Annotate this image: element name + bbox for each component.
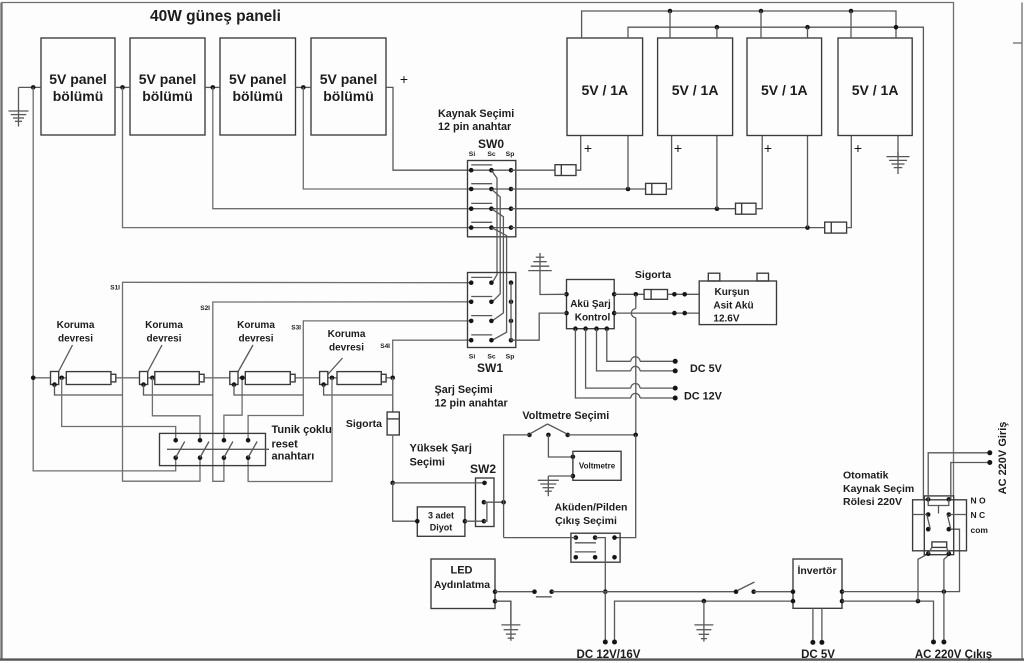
fuse F1 bbox=[555, 165, 576, 176]
svg-text:devresi: devresi bbox=[146, 334, 181, 345]
svg-text:Aküden/Pilden: Aküden/Pilden bbox=[555, 502, 628, 514]
pins relay com row bbox=[926, 527, 931, 532]
wire relay bottom right jog bbox=[944, 554, 950, 592]
ground G1 top left bbox=[18, 87, 20, 126]
svg-text:+: + bbox=[854, 140, 862, 156]
wire controller to battery fuse bbox=[614, 293, 644, 295]
svg-text:Kurşun: Kurşun bbox=[715, 287, 750, 298]
pins SW1 row1 bbox=[469, 280, 474, 285]
svg-text:12.6V: 12.6V bbox=[713, 314, 739, 325]
node rail ground tap bbox=[702, 599, 707, 604]
fuse battery Sigorta bbox=[644, 290, 667, 300]
wire bus C tap charger3 bbox=[807, 27, 809, 38]
wire K3 bottom to descender bbox=[234, 385, 303, 395]
wire selector left to output bus bbox=[504, 435, 530, 538]
svg-text:+: + bbox=[584, 140, 592, 156]
svg-text:+: + bbox=[764, 140, 772, 156]
svg-text:12 pin anahtar: 12 pin anahtar bbox=[435, 398, 509, 410]
node bus B charger4 bbox=[849, 9, 854, 14]
svg-text:Diyot: Diyot bbox=[430, 523, 453, 533]
switch reset S2 contacts bbox=[198, 438, 203, 443]
svg-text:5V panel: 5V panel bbox=[229, 71, 287, 87]
svg-text:Koruma: Koruma bbox=[237, 320, 275, 331]
switch SW1 row4 contact bar bbox=[471, 334, 492, 336]
wire SW2 middle to battery bus bbox=[484, 501, 504, 503]
pin SW2 top bbox=[482, 481, 487, 486]
wire AC out right arrow bbox=[943, 592, 945, 641]
wire battery bus down to output block bbox=[615, 435, 636, 538]
wire pointer koruma 2 bbox=[144, 345, 162, 379]
node K4 junction bbox=[330, 376, 335, 381]
svg-text:Sc: Sc bbox=[487, 354, 496, 361]
switch SW1 row1 contact bar bbox=[471, 276, 492, 278]
ground G7 rail bbox=[703, 601, 705, 642]
switch SW0 12-pin block bbox=[468, 161, 516, 237]
node bus C charger3 bbox=[805, 25, 810, 30]
node SW2 output on battery bus bbox=[501, 500, 506, 505]
svg-text:Şarj Seçimi: Şarj Seçimi bbox=[435, 384, 493, 396]
wire ground to panel 1 bbox=[19, 86, 42, 88]
relay box akuden/pilden output select bbox=[571, 533, 620, 562]
wire SW0 row1 through bbox=[471, 169, 511, 171]
fuse F4 bbox=[825, 222, 847, 233]
breaker switch K1 bbox=[51, 372, 59, 385]
wire SW0 row2 to fuse F2 bbox=[511, 188, 646, 190]
svg-text:Tunik çoklu: Tunik çoklu bbox=[272, 424, 332, 436]
svg-text:Sigorta: Sigorta bbox=[635, 269, 671, 281]
wire reset switch link bar bbox=[167, 448, 269, 450]
wire right border bus bbox=[1021, 3, 1023, 660]
svg-text:5V / 1A: 5V / 1A bbox=[581, 82, 628, 98]
svg-text:5V panel: 5V panel bbox=[139, 71, 197, 87]
wire koruma unit2 junction to reset top pin2 bbox=[152, 378, 200, 441]
wire SW0 Sc row3 to bundle bbox=[491, 209, 503, 321]
svg-text:Koruma: Koruma bbox=[328, 329, 366, 340]
wire sigorta output to SW2 top pin bbox=[393, 482, 485, 484]
svg-text:5V / 1A: 5V / 1A bbox=[672, 82, 719, 98]
switch reset S4 contacts bbox=[246, 438, 251, 443]
pins inverter right bbox=[840, 589, 845, 594]
wire SW0 row1 to fuse F1 bbox=[511, 169, 555, 171]
svg-text:3 adet: 3 adet bbox=[428, 511, 454, 521]
breaker switch K3 bbox=[230, 372, 238, 385]
wire left riser from ground node bbox=[33, 87, 176, 471]
switch SW1 row3 contact bar bbox=[471, 315, 492, 317]
LED box Aydinlatma bbox=[431, 559, 495, 609]
svg-text:5V / 1A: 5V / 1A bbox=[761, 82, 808, 98]
node bus C charger2 bbox=[715, 25, 720, 30]
pins output select bottom bbox=[574, 555, 579, 560]
svg-text:Sp: Sp bbox=[506, 151, 515, 158]
wire output select internal bars bbox=[575, 542, 596, 544]
pins relay NC row bbox=[926, 512, 931, 517]
wire koruma common row bbox=[33, 377, 393, 379]
pin LED lower bbox=[493, 599, 498, 604]
node K2 bottom pin bbox=[141, 382, 146, 387]
wire SW0 row4 through bbox=[471, 227, 511, 229]
wire bottom border bus bbox=[0, 659, 1024, 661]
wire SW1 Sp strap bbox=[510, 283, 512, 341]
svg-text:Akü Şarj: Akü Şarj bbox=[570, 299, 611, 310]
pins SW0 row3 bbox=[469, 206, 474, 211]
wire sigorta riser upper bbox=[392, 378, 394, 412]
svg-text:Çıkış Seçimi: Çıkış Seçimi bbox=[555, 515, 617, 527]
wire K2 bottom to descender bbox=[144, 385, 213, 395]
solar panel section box 3 bbox=[220, 38, 296, 135]
wire koruma unit3 junction to reset top pin3 bbox=[224, 378, 242, 441]
resistor R3 protection bbox=[245, 372, 290, 385]
svg-text:reset: reset bbox=[272, 439, 299, 451]
node left riser koruma row bbox=[31, 376, 36, 381]
wire controller out4 DC12V b bbox=[575, 329, 630, 398]
wire panel4 output + bbox=[386, 87, 471, 170]
relay coil bbox=[932, 542, 947, 548]
battery box Kursun Asit Aku BT1 bbox=[699, 281, 776, 325]
wire controller out3 DC12V a bbox=[586, 329, 631, 388]
diode box 3 adet Diyot D1-D3 bbox=[417, 507, 465, 536]
wire output node to inverter switch bbox=[605, 591, 736, 593]
relay contact arms bbox=[927, 515, 931, 530]
svg-text:Si: Si bbox=[469, 354, 476, 361]
pins SW1 row3 bbox=[469, 319, 474, 324]
switch SW1 12-pin block bbox=[468, 273, 516, 348]
charge controller box Aku Sarj Kontrol U1 bbox=[567, 280, 615, 329]
wire LED to switch bbox=[495, 591, 535, 593]
svg-text:com: com bbox=[971, 525, 989, 535]
wire left border double bbox=[0, 3, 2, 660]
node charger1 minus junction bbox=[626, 187, 631, 192]
wire charger4 minus to ground bbox=[897, 136, 899, 157]
svg-text:SW1: SW1 bbox=[477, 361, 503, 375]
wire K4 bottom to descender bbox=[324, 385, 393, 395]
wire select block output down bbox=[595, 538, 605, 592]
node junction on ground wire bbox=[31, 85, 36, 90]
relay K1 outer box bbox=[913, 500, 967, 551]
svg-text:AC 220V Giriş: AC 220V Giriş bbox=[997, 422, 1009, 495]
wire relay bottom left jog bbox=[918, 554, 928, 601]
svg-text:5V panel: 5V panel bbox=[49, 71, 107, 87]
svg-text:Kontrol: Kontrol bbox=[575, 313, 611, 324]
pins relay top row bbox=[926, 497, 931, 502]
svg-text:Otomatik: Otomatik bbox=[843, 470, 889, 482]
svg-text:N O: N O bbox=[971, 496, 987, 506]
wire pointer koruma 1 bbox=[55, 345, 73, 379]
fuse F2 bbox=[646, 183, 667, 194]
ground G2 charger4 bbox=[897, 152, 899, 174]
wire SW0 Sc row1 to bundle bbox=[491, 170, 497, 283]
ground G5 voltmeter bbox=[547, 476, 549, 496]
node output on LED wire bbox=[603, 589, 608, 594]
svg-text:anahtarı: anahtarı bbox=[272, 451, 315, 463]
resistor R4 protection bbox=[337, 372, 381, 385]
wire panel junction1 to SW0 row4 bbox=[123, 87, 472, 227]
resistor R2 protection bbox=[155, 372, 200, 385]
switch inverter SPST bbox=[734, 589, 739, 594]
pin controller left upper bbox=[564, 292, 569, 297]
solar panel section box 1 bbox=[41, 38, 115, 135]
wire LED lower to ground bbox=[495, 601, 511, 625]
ground G3 inverted above controller bbox=[539, 253, 541, 271]
wire switch to output node bbox=[552, 591, 606, 593]
wire SW0 row3 to fuse F3 bbox=[511, 208, 736, 210]
switch LED SPST bbox=[532, 589, 537, 594]
node battery bus at selector bbox=[633, 433, 638, 438]
wire controller lower to battery minus bbox=[614, 312, 699, 314]
inverter box Invertor bbox=[793, 559, 842, 608]
svg-text:devresi: devresi bbox=[238, 334, 273, 345]
relay center tee bbox=[928, 499, 949, 505]
wire diode box to SW2 bottom pin bbox=[465, 520, 484, 522]
wire sigorta riser lower bbox=[392, 435, 394, 483]
wire switch to inverter bbox=[754, 591, 793, 593]
svg-text:devresi: devresi bbox=[329, 343, 364, 354]
connector dots battery minus bbox=[672, 311, 677, 316]
node K1 junction bbox=[59, 376, 64, 381]
wire selector pole to voltmeter bbox=[548, 435, 573, 457]
resistor R1 protection bbox=[66, 372, 111, 385]
node bus B charger2 bbox=[668, 9, 673, 14]
wire bus B tap charger4 bbox=[850, 11, 852, 38]
node bus B charger3 bbox=[759, 9, 764, 14]
node panel junction 3 bbox=[301, 85, 306, 90]
wire bus B tap charger3 bbox=[760, 11, 762, 38]
wire controller upper left to ground bbox=[540, 271, 567, 295]
pins SW0 row1 bbox=[469, 168, 474, 173]
svg-text:Sp: Sp bbox=[506, 354, 515, 361]
wire inverter AC neutral bbox=[842, 601, 934, 640]
wire SW1 output to controller lower left bbox=[511, 313, 567, 340]
pin diode box right bbox=[463, 519, 468, 524]
wire inverter AC hot to relay com bbox=[842, 529, 960, 591]
svg-text:DC 12V: DC 12V bbox=[684, 391, 723, 403]
svg-text:DC 5V: DC 5V bbox=[690, 363, 723, 375]
svg-text:Koruma: Koruma bbox=[145, 320, 183, 331]
wire bus B tap charger2 bbox=[669, 11, 671, 38]
wire fuse F3 to charger3 + bbox=[756, 136, 762, 209]
switch SW0 row2 contact bar bbox=[471, 183, 492, 185]
charger box 5V/1A 4 bbox=[838, 38, 912, 136]
wire top bus B chargers plus bbox=[582, 11, 896, 38]
pins SW1 row2 bbox=[469, 300, 474, 305]
svg-text:+: + bbox=[400, 71, 408, 87]
wire fuse F4 to charger4 + bbox=[847, 136, 852, 228]
switch SW2 box bbox=[476, 478, 495, 527]
wire K1 bottom to descender bbox=[55, 385, 123, 395]
svg-text:Koruma: Koruma bbox=[57, 320, 95, 331]
wire charger2 minus down bbox=[716, 136, 718, 209]
node K2 junction bbox=[150, 376, 155, 381]
svg-text:Rölesi 220V: Rölesi 220V bbox=[843, 496, 902, 508]
svg-text:İnvertör: İnvertör bbox=[797, 564, 836, 577]
wire SW0 row3 through bbox=[471, 208, 511, 210]
wire panel3-panel4 bbox=[296, 86, 312, 88]
node panel junction 1 bbox=[120, 85, 125, 90]
wire controller out1 DC5V a bbox=[607, 329, 631, 362]
wire bus C tap charger2 bbox=[716, 27, 718, 38]
wire S3I line to SW1 row3 bbox=[248, 321, 472, 440]
switch reset S1 contacts bbox=[173, 438, 178, 443]
wire panel2-panel3 bbox=[205, 86, 220, 88]
wire panel1-panel2 bbox=[115, 86, 130, 88]
svg-text:Si: Si bbox=[469, 151, 476, 158]
svg-text:S4I: S4I bbox=[380, 343, 390, 350]
wire pointer koruma 3 bbox=[234, 345, 253, 379]
node K4 bottom pin bbox=[321, 382, 326, 387]
pins SW0 row2 bbox=[469, 187, 474, 192]
solar panel section box 2 bbox=[130, 38, 205, 135]
wire S1I line to SW1 row1 bbox=[123, 282, 473, 481]
wire SW2 middle link bbox=[484, 502, 487, 521]
wire charger3 minus down bbox=[807, 136, 809, 228]
wire pointer koruma 4 bbox=[324, 358, 343, 379]
svg-text:Yüksek Şarj: Yüksek Şarj bbox=[410, 443, 472, 455]
pin SW2 middle bbox=[482, 500, 487, 505]
node K1 bottom pin bbox=[52, 382, 57, 387]
wire AC input stub top right bbox=[1013, 42, 1022, 44]
node bus C crossing bus B drop bbox=[894, 25, 899, 30]
switch SW0 row1 contact bar bbox=[471, 164, 492, 166]
node AC neutral relay tap bbox=[916, 599, 921, 604]
node AC out right tap bbox=[942, 589, 947, 594]
svg-text:S3I: S3I bbox=[291, 325, 301, 332]
breaker switch K2 bbox=[140, 372, 148, 385]
wire SW0 Sc row2 to bundle bbox=[491, 189, 500, 302]
wire AC giris lower to relay NO bbox=[951, 463, 990, 500]
svg-text:Kaynak Seçimi: Kaynak Seçimi bbox=[438, 108, 514, 120]
svg-text:S1I: S1I bbox=[110, 285, 120, 292]
node sigorta riser on koruma row bbox=[390, 376, 395, 381]
svg-text:DC 5V: DC 5V bbox=[801, 649, 835, 661]
wire charger1 minus down bbox=[627, 136, 629, 190]
wire koruma unit4 junction to reset bottom pin4 bbox=[248, 378, 332, 482]
breaker switch K4 bbox=[320, 372, 328, 385]
svg-text:Voltmetre: Voltmetre bbox=[579, 462, 616, 471]
svg-text:DC 12V/16V: DC 12V/16V bbox=[577, 649, 641, 661]
connector dots battery plus bbox=[672, 292, 677, 297]
pin controller right upper bbox=[612, 292, 617, 297]
node battery bus tap bbox=[634, 292, 639, 297]
wire battery bus vertical with hop bbox=[635, 294, 637, 308]
wire top bus C chargers minus to relay bbox=[628, 27, 928, 499]
svg-text:N C: N C bbox=[971, 510, 986, 520]
svg-text:Voltmetre Seçimi: Voltmetre Seçimi bbox=[522, 410, 609, 422]
node K3 bottom pin bbox=[232, 382, 237, 387]
svg-text:SW0: SW0 bbox=[478, 137, 504, 151]
wire voltmeter bottom to ground bbox=[548, 475, 573, 477]
node charger2 minus junction bbox=[715, 206, 720, 211]
node sigorta output bbox=[390, 481, 395, 486]
wire S2I line to SW1 row2 bbox=[213, 302, 472, 482]
voltmeter box M1 bbox=[573, 451, 621, 480]
wire DC12V/16V rail bbox=[615, 601, 794, 642]
pin SW2 bottom bbox=[482, 519, 487, 524]
node charger3 minus junction bbox=[805, 225, 810, 230]
pins SW0 row4 bbox=[469, 225, 474, 230]
ground G6 LED bbox=[510, 601, 512, 641]
svg-text:Kaynak Seçim: Kaynak Seçim bbox=[843, 483, 914, 495]
svg-text:Aydınlatma: Aydınlatma bbox=[434, 579, 490, 591]
wire SW0 Sc row4 to bundle bbox=[491, 228, 506, 341]
svg-text:SW2: SW2 bbox=[470, 462, 496, 476]
charger box 5V/1A 3 bbox=[747, 38, 822, 136]
pins controller bottom bbox=[573, 326, 578, 331]
switch box Tunik coklu reset anahtari bbox=[160, 433, 266, 465]
pin LED upper bbox=[493, 589, 498, 594]
wire output bus to select block bbox=[504, 537, 576, 539]
svg-text:Seçimi: Seçimi bbox=[410, 457, 445, 469]
svg-text:LED: LED bbox=[451, 565, 473, 577]
svg-text:Asit Akü: Asit Akü bbox=[713, 301, 753, 312]
node voltmeter top pin bbox=[571, 455, 576, 460]
svg-text:40W güneş paneli: 40W güneş paneli bbox=[150, 8, 281, 25]
wire panel junction2 to SW0 row3 bbox=[213, 87, 471, 208]
svg-text:bölümü: bölümü bbox=[142, 88, 193, 104]
pins inverter left bbox=[791, 589, 796, 594]
wire output to DC12V/16V arrow bbox=[604, 592, 606, 641]
switch SW0 row4 contact bar bbox=[471, 221, 492, 223]
svg-text:bölümü: bölümü bbox=[232, 88, 283, 104]
pins output select top bbox=[574, 535, 579, 540]
charger box 5V/1A 2 bbox=[658, 38, 733, 136]
pins SW1 row4 bbox=[469, 338, 474, 343]
switch SW1 row2 contact bar bbox=[471, 296, 492, 298]
node panel junction 2 bbox=[211, 85, 216, 90]
wire SW0 row4 to fuse F4 bbox=[511, 227, 825, 229]
charger box 5V/1A 1 bbox=[567, 38, 643, 136]
wire fuse F1 to charger1 + bbox=[576, 136, 581, 171]
wire selector right to battery bus bbox=[568, 434, 636, 436]
wire panel junction3 to SW0 row2 bbox=[303, 87, 471, 189]
svg-text:Sc: Sc bbox=[487, 151, 496, 158]
node voltmeter bottom pin bbox=[571, 474, 576, 479]
svg-text:+: + bbox=[674, 140, 682, 156]
wire sigorta output down to diode box bbox=[393, 483, 418, 521]
svg-text:12 pin anahtar: 12 pin anahtar bbox=[438, 121, 512, 133]
svg-text:devresi: devresi bbox=[58, 334, 93, 345]
pin diode box left bbox=[415, 519, 420, 524]
pin controller left lower bbox=[564, 311, 569, 316]
svg-text:bölümü: bölümü bbox=[323, 88, 374, 104]
wire AC giris upper to relay bbox=[928, 453, 990, 500]
switch SW0 row3 contact bar bbox=[471, 202, 492, 204]
fuse F3 bbox=[736, 203, 757, 214]
wire S4I line to SW1 row4 bbox=[393, 340, 473, 412]
solar panel section box 4 bbox=[311, 38, 386, 135]
pins relay bottom row bbox=[926, 551, 931, 556]
wire koruma unit1 junction to reset top pin1 bbox=[62, 378, 176, 441]
fuse Sigorta charge path bbox=[387, 412, 399, 435]
svg-text:5V panel: 5V panel bbox=[320, 71, 378, 87]
pin controller right lower bbox=[612, 311, 617, 316]
relay NC stubs bbox=[913, 514, 927, 516]
svg-text:Sigorta: Sigorta bbox=[346, 418, 382, 430]
svg-text:AC 220V Çıkış: AC 220V Çıkış bbox=[915, 649, 992, 661]
relay K1 inner box bbox=[924, 496, 953, 555]
svg-text:bölümü: bölümü bbox=[53, 88, 104, 104]
wire fuse F2 to charger2 + bbox=[666, 136, 671, 190]
wire fuse to battery plus bbox=[668, 293, 700, 295]
node K3 junction bbox=[240, 376, 245, 381]
wire SW0 row2 through bbox=[471, 188, 511, 190]
pins inverter bottom DC5V bbox=[812, 608, 814, 641]
svg-text:5V / 1A: 5V / 1A bbox=[852, 82, 899, 98]
svg-text:S2I: S2I bbox=[200, 305, 210, 312]
switch voltmetre selector bbox=[527, 433, 532, 438]
wire controller out2 DC5V b bbox=[597, 329, 631, 371]
switch reset S3 contacts bbox=[222, 438, 227, 443]
